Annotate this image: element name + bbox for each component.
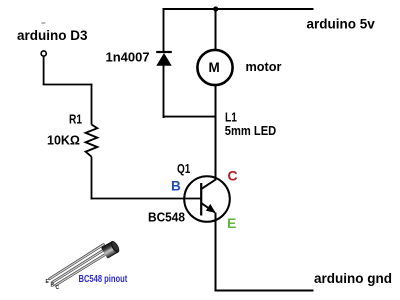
- wire diode branch lower: [163, 65, 165, 118]
- transistor photo body: [101, 240, 121, 259]
- svg-text:BC548 pinout: BC548 pinout: [79, 274, 128, 285]
- wire diode branch bottom horizontal: [163, 116, 217, 118]
- transistor Q1 circle: [184, 176, 230, 222]
- svg-text:1n4007: 1n4007: [106, 50, 150, 65]
- wire resistor bottom lead: [91, 157, 93, 200]
- wire resistor top lead: [91, 84, 93, 125]
- wire motor to transistor collector: [215, 85, 217, 180]
- svg-text:M: M: [209, 60, 220, 75]
- wire base horizontal: [91, 198, 201, 200]
- svg-text:arduino D3: arduino D3: [17, 28, 88, 43]
- junction dot top rail: [213, 6, 218, 11]
- node D3 (open terminal circle): [41, 51, 46, 56]
- svg-text:B: B: [51, 283, 55, 289]
- svg-text:arduino gnd: arduino gnd: [314, 271, 392, 286]
- svg-text:C: C: [56, 285, 60, 291]
- svg-text:Q1: Q1: [177, 162, 190, 176]
- resistor R1 zigzag: [86, 125, 98, 157]
- transistor Q1 collector diagonal: [201, 179, 216, 189]
- svg-text:10KΩ: 10KΩ: [47, 134, 80, 148]
- wire diode branch upper: [163, 8, 165, 52]
- svg-text:arduino 5v: arduino 5v: [307, 17, 376, 32]
- wire D3 down: [43, 56, 45, 84]
- svg-text:C: C: [228, 168, 238, 184]
- transistor Q1 emitter arrowhead: [206, 204, 216, 213]
- motor M1 circle: [197, 50, 232, 85]
- wire emitter down: [215, 213, 217, 292]
- svg-text:5mm LED: 5mm LED: [225, 123, 276, 138]
- transistor Q1 emitter diagonal: [201, 203, 215, 213]
- svg-text:motor: motor: [246, 59, 282, 74]
- wire top rail: [163, 8, 314, 10]
- svg-text:R1: R1: [69, 112, 82, 126]
- wire D3 horizontal to resistor column: [43, 84, 93, 86]
- diode D1 cathode bar: [156, 51, 172, 53]
- svg-text:E: E: [227, 215, 236, 231]
- wire ground horizontal: [215, 290, 314, 292]
- diode D1 triangle: [156, 53, 171, 66]
- transistor photo leads: [50, 245, 109, 286]
- BC548 pinout photo: [46, 240, 128, 291]
- wire main vertical 5v to motor: [215, 9, 217, 50]
- transistor Q1 base bar: [200, 183, 202, 216]
- stray gray dash: [42, 22, 46, 24]
- svg-text:BC548: BC548: [148, 211, 185, 225]
- svg-text:B: B: [171, 179, 181, 194]
